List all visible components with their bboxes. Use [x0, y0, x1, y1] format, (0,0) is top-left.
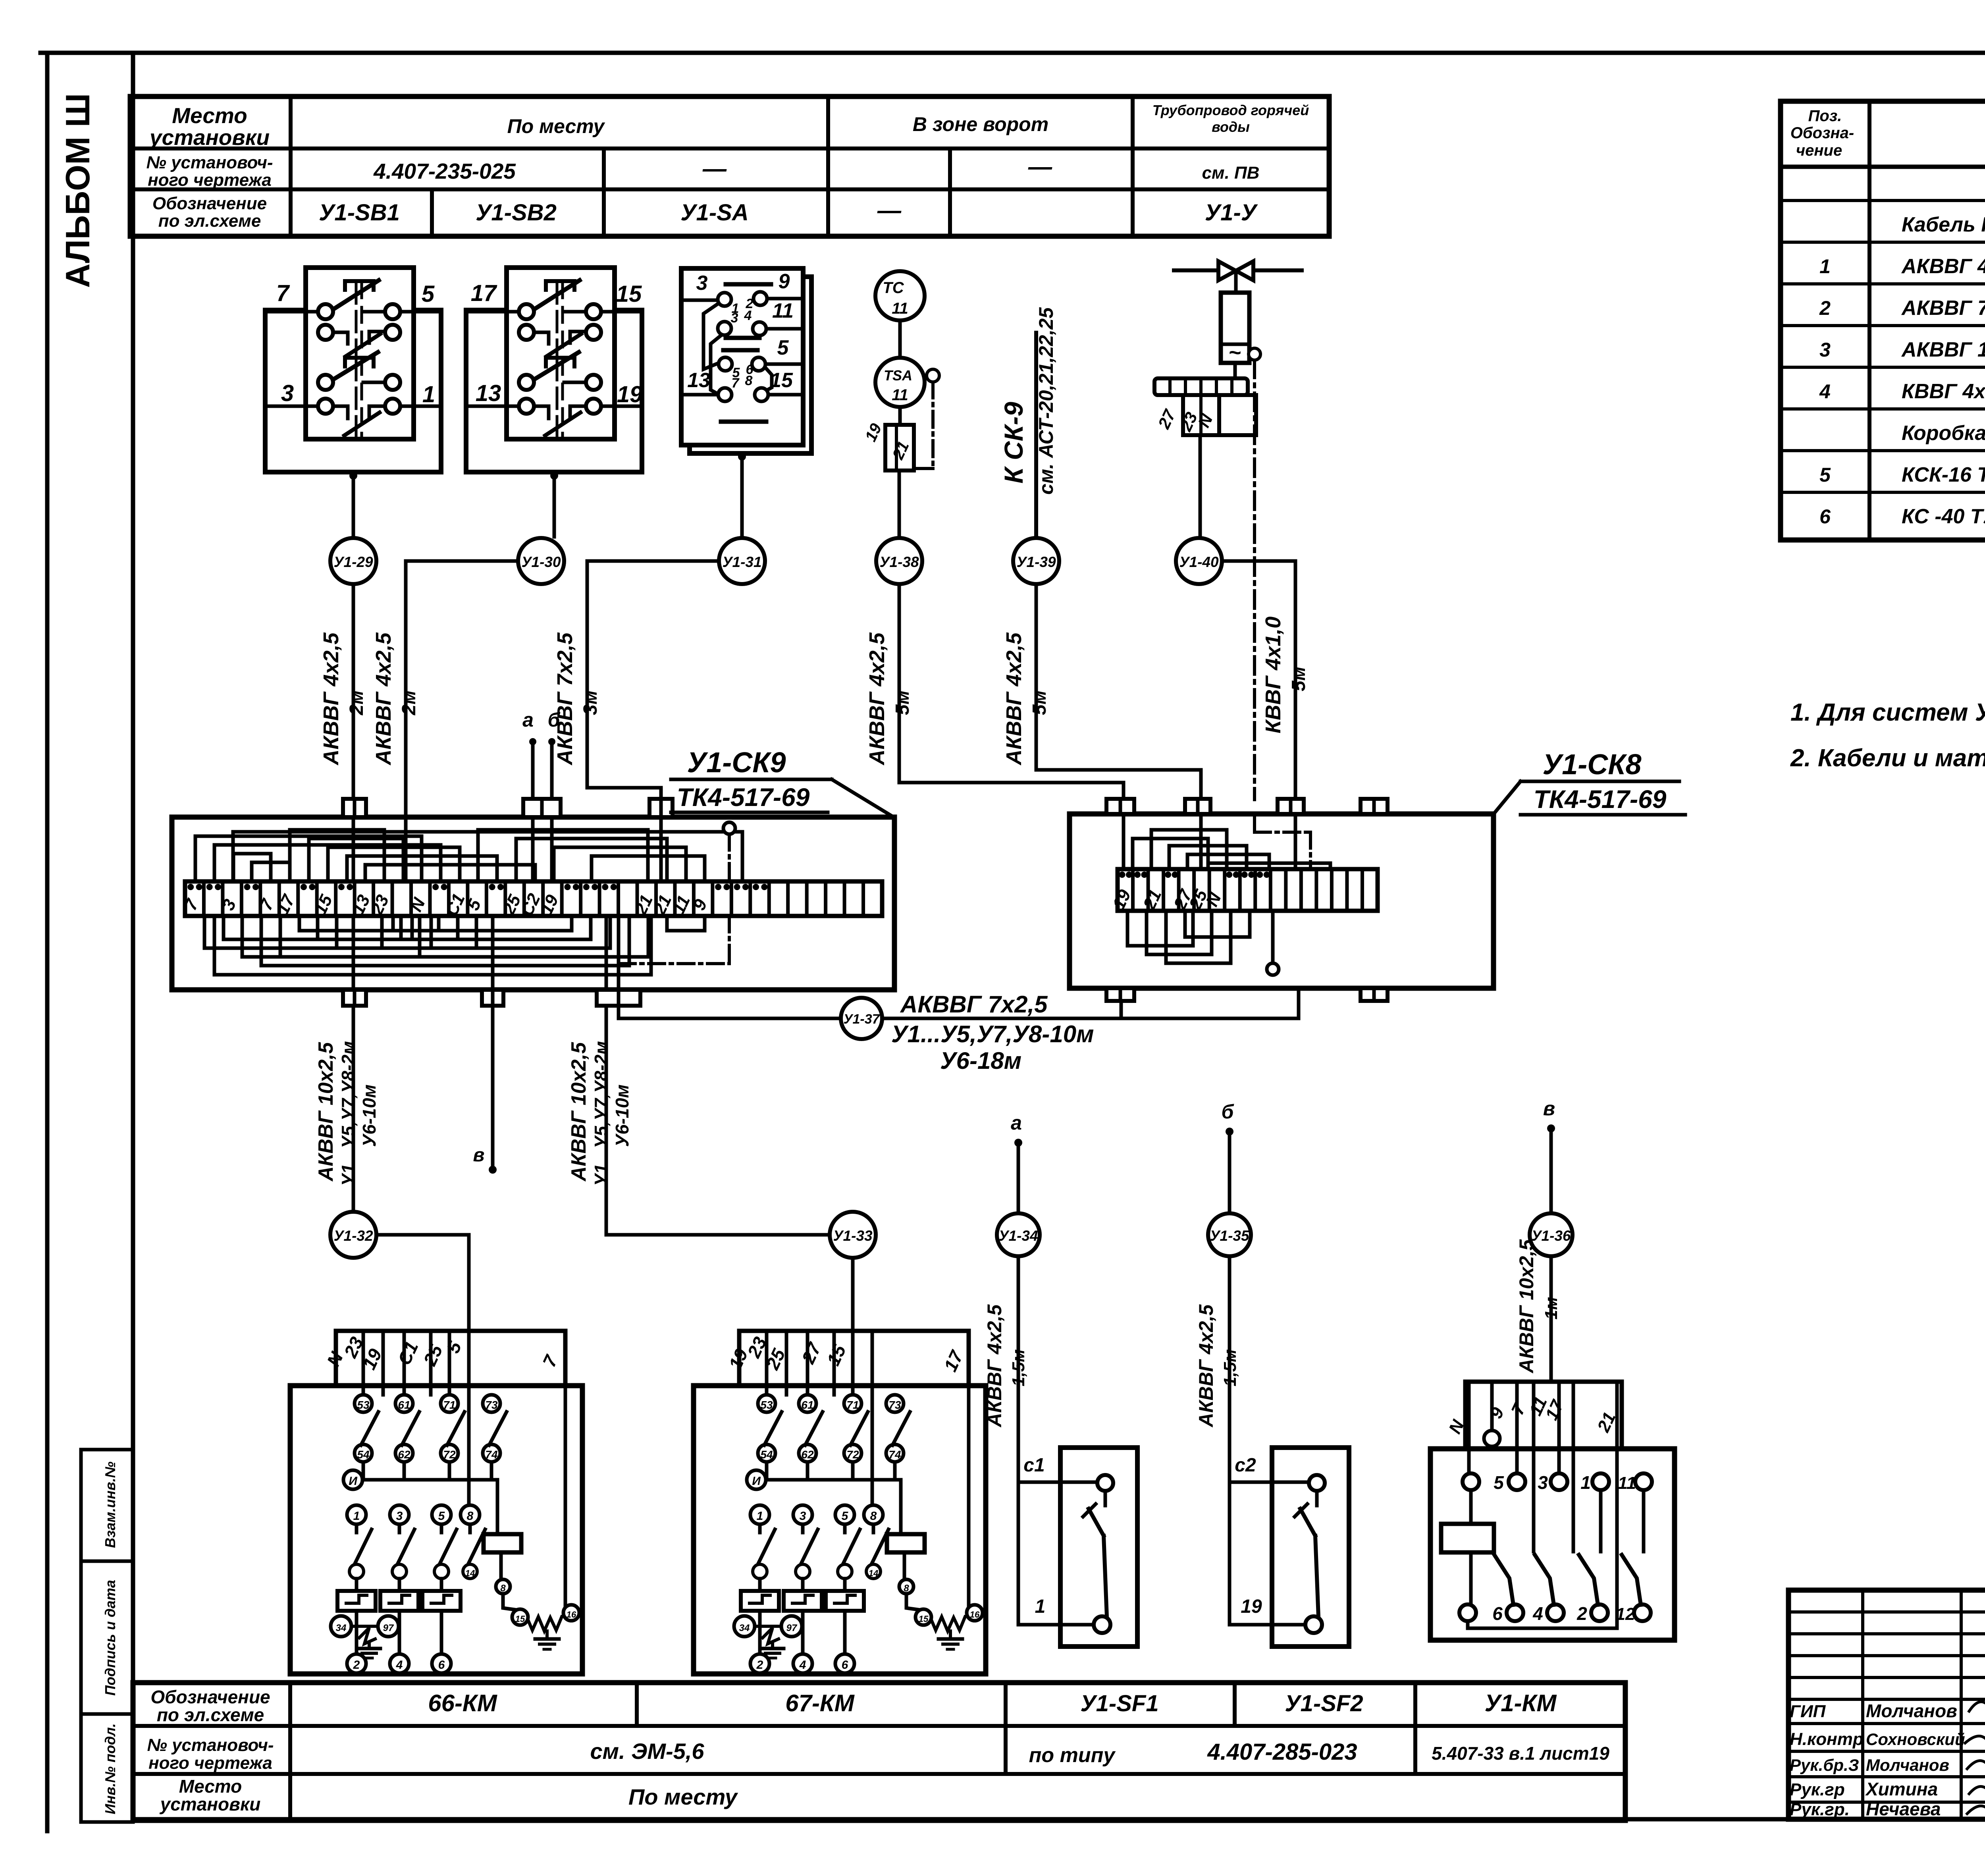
svg-text:Взам.инв.№: Взам.инв.№ [102, 1461, 118, 1548]
mid junction circles [734, 1616, 755, 1637]
svg-text:5: 5 [422, 281, 435, 307]
solenoid aux contact [1249, 348, 1260, 360]
wire СК9 to У1-32 [352, 1006, 355, 1212]
svg-text:У1-34: У1-34 [998, 1228, 1038, 1244]
svg-text:с2: с2 [1235, 1455, 1256, 1476]
svg-text:АКВВГ 4х2,5: АКВВГ 4х2,5 [319, 632, 343, 765]
svg-text:19: 19 [617, 382, 643, 407]
svg-text:АКВВГ 4х2,5: АКВВГ 4х2,5 [1002, 632, 1026, 765]
svg-text:У1-35: У1-35 [1210, 1228, 1250, 1244]
node И [343, 1470, 362, 1489]
svg-text:В зоне ворот: В зоне ворот [913, 113, 1048, 135]
svg-text:61: 61 [801, 1399, 813, 1411]
svg-text:71: 71 [443, 1399, 455, 1411]
svg-text:Трубопровод горячей: Трубопровод горячей [1152, 102, 1309, 118]
svg-text:1: 1 [1035, 1596, 1046, 1617]
svg-text:2м: 2м [399, 690, 420, 715]
svg-text:КВВГ 4х1,0: КВВГ 4х1,0 [1261, 617, 1285, 733]
svg-text:У6-10м: У6-10м [612, 1084, 632, 1147]
svg-text:5: 5 [438, 1510, 445, 1523]
svg-text:У1-37: У1-37 [843, 1012, 880, 1027]
wire TSA to relay box [898, 407, 902, 425]
svg-text:АКВВГ 4х2,5: АКВВГ 4х2,5 [983, 1304, 1006, 1428]
svg-text:72: 72 [846, 1448, 859, 1461]
instrument TSA 11 [875, 358, 925, 407]
hot water pipe line [1174, 268, 1302, 272]
У1-КМ duct wires [1467, 1382, 1471, 1474]
svg-text:У1...У5,У7,У8-2м: У1...У5,У7,У8-2м [338, 1041, 358, 1186]
СК9 top bushings [343, 799, 366, 817]
pin circles [318, 304, 333, 319]
У1-37 branch to СК8 tab [1120, 1002, 1123, 1018]
СК8 dash-dot path [1253, 814, 1256, 832]
svg-text:К СК-9: К СК-9 [999, 402, 1028, 484]
cable marker У1-38 [876, 538, 922, 584]
starter top wire duct [739, 1331, 969, 1386]
svg-text:б: б [548, 709, 561, 731]
svg-text:5.407-33 в.1 лист19: 5.407-33 в.1 лист19 [1432, 1743, 1609, 1764]
svg-text:1: 1 [422, 382, 435, 407]
svg-text:1: 1 [1580, 1472, 1591, 1493]
svg-text:13: 13 [476, 380, 501, 406]
svg-text:У1-32: У1-32 [333, 1228, 373, 1244]
TSA dash-dot link [931, 382, 935, 469]
svg-text:6: 6 [1492, 1603, 1503, 1624]
svg-text:АКВВГ 10х2,5: АКВВГ 10х2,5 [567, 1042, 590, 1182]
breaker blade [1315, 1536, 1318, 1617]
svg-text:АКВВГ 10х2,5: АКВВГ 10х2,5 [1901, 338, 1985, 361]
signature grid [1788, 1610, 1985, 1614]
svg-text:9: 9 [779, 270, 790, 293]
svg-text:У1-SB2: У1-SB2 [476, 200, 557, 226]
svg-text:5: 5 [1494, 1472, 1504, 1493]
svg-text:4: 4 [799, 1658, 806, 1672]
СК9 incoming wires [352, 817, 355, 881]
svg-text:по типу: по типу [1029, 1744, 1116, 1767]
svg-text:4: 4 [1819, 380, 1831, 403]
svg-text:11: 11 [892, 386, 908, 404]
push-button switch У1-SB1 outer box [265, 310, 441, 472]
svg-text:2: 2 [353, 1658, 360, 1672]
svg-text:1,5м: 1,5м [1220, 1349, 1240, 1386]
svg-text:4: 4 [396, 1658, 403, 1672]
instrument TC 11 [875, 271, 925, 320]
У1-КМ bottom pole circles [1459, 1604, 1476, 1621]
У1-КМ top pole circles [1463, 1473, 1479, 1490]
svg-text:АЛЬБОМ Ш: АЛЬБОМ Ш [59, 93, 97, 288]
duct wires [765, 1331, 769, 1395]
stamp cell Взам.инв.№ [81, 1450, 133, 1561]
SA wire to marker [740, 453, 744, 537]
svg-text:КВВГ 4х1,0: КВВГ 4х1,0 [1902, 380, 1985, 403]
СК9 wiring loops below strip [204, 916, 382, 948]
svg-text:61: 61 [398, 1399, 410, 1411]
svg-text:У6-18м: У6-18м [940, 1047, 1021, 1074]
svg-text:У1-30: У1-30 [521, 554, 561, 570]
svg-text:14: 14 [869, 1568, 878, 1578]
SA double-bar marks [726, 282, 771, 287]
wire У1-33 to 67-КМ [851, 1258, 855, 1329]
svg-text:№ установоч-: № установоч- [146, 153, 273, 172]
svg-text:У1-СК8: У1-СК8 [1542, 749, 1641, 781]
svg-text:3: 3 [281, 380, 294, 406]
wire TC-TSA [898, 320, 902, 358]
svg-text:72: 72 [443, 1448, 456, 1461]
svg-text:73: 73 [888, 1399, 901, 1411]
line to CK-9 [1034, 333, 1038, 536]
СК9 bottom bushings [343, 990, 366, 1006]
svg-text:97: 97 [383, 1623, 394, 1633]
svg-text:установки: установки [148, 125, 270, 150]
selector switch У1-SA shadow box [690, 277, 811, 453]
svg-text:2м: 2м [346, 690, 367, 715]
svg-text:У1-29: У1-29 [333, 554, 373, 570]
svg-text:У1-SF1: У1-SF1 [1080, 1691, 1158, 1716]
wire СК9 to node в [491, 1006, 495, 1170]
auxiliary contacts [758, 1395, 775, 1412]
svg-text:И: И [349, 1475, 358, 1488]
stamp cell Подпись и дата [81, 1561, 133, 1714]
svg-text:34: 34 [336, 1623, 347, 1633]
svg-text:97: 97 [786, 1623, 798, 1633]
svg-text:ТК4-517-69: ТК4-517-69 [677, 783, 810, 812]
wire to У1-40 [1199, 435, 1202, 536]
aux dash-dot down [1253, 360, 1256, 800]
svg-text:6: 6 [842, 1658, 848, 1672]
coil [484, 1534, 521, 1552]
svg-text:Н.контр: Н.контр [1790, 1729, 1864, 1749]
wire в to У1-36 [1549, 1132, 1553, 1212]
svg-text:Рук.бр.З: Рук.бр.З [1790, 1756, 1859, 1774]
СК9 bottom bus [214, 916, 651, 975]
svg-text:2: 2 [1819, 297, 1831, 319]
svg-text:У1-СК9: У1-СК9 [687, 747, 786, 779]
svg-text:По месту: По месту [507, 115, 605, 137]
svg-text:№ установоч-: № установоч- [147, 1735, 274, 1755]
pin wires [466, 310, 519, 314]
cable marker У1-30 [518, 538, 564, 584]
СК9 leader [832, 779, 894, 817]
parts table frame [1781, 101, 1985, 540]
svg-text:2. Кабели и материалы учт: 2. Кабели и материалы учтены для 8 систе… [1790, 744, 1985, 772]
svg-text:5м: 5м [892, 690, 913, 715]
svg-text:У1-SA: У1-SA [680, 200, 748, 226]
starter top wire duct [336, 1331, 565, 1386]
svg-text:53: 53 [760, 1399, 773, 1411]
svg-text:3: 3 [800, 1510, 806, 1523]
svg-text:74: 74 [485, 1448, 498, 1461]
svg-text:6: 6 [1819, 505, 1831, 528]
svg-text:АКВВГ 10х2,5: АКВВГ 10х2,5 [314, 1042, 337, 1182]
node б [1226, 1128, 1233, 1136]
svg-text:16: 16 [970, 1610, 980, 1620]
main contacts [750, 1505, 769, 1524]
wire СК9 to У1-33 [606, 1006, 830, 1235]
duct right wire [564, 1331, 567, 1613]
svg-text:ТSА: ТSА [884, 367, 912, 384]
title block frame [1788, 1590, 1985, 1819]
valve stem [1234, 271, 1238, 293]
svg-text:У1-31: У1-31 [722, 554, 761, 570]
svg-text:У6-10м: У6-10м [359, 1084, 380, 1147]
svg-text:53: 53 [357, 1399, 370, 1411]
right ground symbol [545, 1631, 549, 1639]
svg-text:1,5м: 1,5м [1009, 1349, 1028, 1386]
breaker box body [1060, 1448, 1137, 1647]
svg-text:54: 54 [357, 1448, 370, 1461]
duct right wire [967, 1331, 971, 1613]
svg-text:Молчанов: Молчанов [1866, 1701, 1957, 1721]
svg-text:19: 19 [1241, 1596, 1262, 1617]
breaker blade [1104, 1536, 1107, 1617]
svg-text:3: 3 [731, 310, 738, 326]
svg-text:У1-39: У1-39 [1016, 554, 1056, 570]
svg-text:У1-КМ: У1-КМ [1485, 1690, 1557, 1716]
bottom table frame [133, 1683, 1625, 1820]
cable marker У1-31 [719, 538, 765, 584]
svg-text:8: 8 [467, 1510, 474, 1523]
svg-text:Подпись и дата: Подпись и дата [102, 1580, 118, 1696]
svg-text:У1-SF2: У1-SF2 [1285, 1691, 1363, 1716]
main contacts [347, 1505, 366, 1524]
selector switch У1-SA box [681, 268, 803, 445]
fourth pole [864, 1505, 883, 1524]
svg-text:У1-40: У1-40 [1179, 554, 1219, 570]
wire а to У1-34 [1017, 1147, 1020, 1212]
wire solenoid to terminals [1233, 363, 1237, 378]
svg-text:5: 5 [842, 1510, 849, 1523]
left ground symbol [368, 1644, 371, 1648]
svg-text:Поз.: Поз. [1808, 107, 1842, 125]
svg-text:Молчанов: Молчанов [1866, 1756, 1949, 1774]
svg-text:5: 5 [1819, 464, 1831, 486]
svg-text:11: 11 [772, 299, 794, 322]
RC chain [503, 1594, 520, 1610]
svg-text:И: И [752, 1475, 761, 1488]
svg-text:АКВВГ 4х2,5: АКВВГ 4х2,5 [1901, 255, 1985, 278]
top table frame [130, 96, 1329, 236]
svg-text:13: 13 [687, 369, 710, 392]
svg-text:АКВВГ 10х2,5: АКВВГ 10х2,5 [1515, 1239, 1538, 1374]
push-button switch У1-SB1 inner box [306, 268, 414, 439]
cable marker У1-32 [330, 1212, 376, 1258]
svg-text:73: 73 [485, 1399, 498, 1411]
page border top [40, 51, 1985, 55]
svg-text:4: 4 [744, 308, 752, 323]
svg-text:66-КМ: 66-КМ [428, 1690, 498, 1716]
svg-text:Место: Место [172, 103, 247, 128]
svg-text:воды: воды [1212, 119, 1250, 135]
svg-text:6: 6 [438, 1658, 445, 1672]
svg-text:ного чертежа: ного чертежа [148, 1753, 272, 1773]
cable marker У1-40 [1176, 538, 1222, 584]
svg-text:см. ЭМ-5,6: см. ЭМ-5,6 [590, 1739, 704, 1764]
svg-text:Инв.№ подл.: Инв.№ подл. [102, 1723, 118, 1814]
node а [1014, 1139, 1022, 1147]
SA pin-to-edge stubs [681, 299, 717, 302]
svg-text:7: 7 [276, 280, 290, 306]
svg-text:Обозна-: Обозна- [1790, 124, 1854, 142]
wire СК9 to У1-37 to СК8 [619, 1006, 841, 1018]
svg-text:ТС: ТС [883, 279, 904, 297]
СК8 leader [1494, 781, 1521, 813]
right ground symbol [949, 1631, 952, 1639]
svg-text:Кабель ГОСТ 1508-78*Е: Кабель ГОСТ 1508-78*Е [1902, 213, 1985, 236]
svg-text:62: 62 [398, 1448, 410, 1461]
svg-text:У1-38: У1-38 [879, 554, 919, 570]
СК8 wiring loops below strip [1127, 911, 1193, 946]
svg-text:по эл.схеме: по эл.схеме [158, 211, 261, 231]
svg-text:1м: 1м [1542, 1297, 1561, 1319]
svg-text:2: 2 [1576, 1603, 1587, 1624]
svg-text:а: а [1011, 1112, 1022, 1134]
svg-text:в: в [1543, 1097, 1555, 1120]
pin circles [519, 304, 534, 319]
svg-text:ТК4-517-69: ТК4-517-69 [1534, 785, 1667, 814]
svg-text:15: 15 [515, 1614, 525, 1624]
auxiliary contacts [355, 1395, 372, 1412]
svg-text:1. Для систем У2...У8 с: 1. Для систем У2...У8 схема аналогична д… [1790, 699, 1985, 726]
svg-text:1: 1 [353, 1510, 360, 1523]
svg-text:Коробка соединительная: Коробка соединительная [1902, 422, 1985, 445]
svg-text:По месту: По месту [628, 1784, 738, 1809]
wire У1-39 to CK8 [1036, 584, 1201, 814]
mid junction circles [331, 1616, 351, 1637]
wire У1-32 to 66-КМ [376, 1235, 469, 1330]
СК9 wiring loops above strip [195, 836, 422, 881]
svg-text:8: 8 [745, 373, 753, 388]
plunger [556, 283, 559, 355]
starter box body [694, 1386, 986, 1674]
svg-text:71: 71 [846, 1399, 859, 1411]
page border bottom [133, 1817, 1985, 1822]
svg-text:КС -40 ТУ 36.1764-76: КС -40 ТУ 36.1764-76 [1902, 505, 1985, 528]
svg-text:5м: 5м [1029, 690, 1050, 715]
svg-text:У1...У5,У7,У8-2м: У1...У5,У7,У8-2м [591, 1041, 611, 1186]
svg-text:8: 8 [870, 1510, 877, 1523]
breaker contacts [1309, 1475, 1325, 1491]
solenoid terminal strip [1154, 378, 1248, 395]
СК9 dash-dot node [723, 822, 735, 834]
svg-text:Хитина: Хитина [1865, 1779, 1938, 1799]
wire У1-30 to CK9 [406, 561, 518, 814]
svg-text:У1-У: У1-У [1205, 200, 1258, 226]
coil [887, 1534, 925, 1552]
wire У1-38 to CK8 [899, 584, 1124, 814]
У1-КМ feed wire [1549, 1258, 1553, 1382]
SA pins [718, 293, 731, 306]
TSA side contact [927, 369, 939, 382]
svg-text:Сохновский: Сохновский [1866, 1730, 1965, 1749]
svg-text:12: 12 [1616, 1604, 1635, 1624]
svg-text:62: 62 [801, 1448, 814, 1461]
svg-text:см. АСТ-20,21,22,25: см. АСТ-20,21,22,25 [1035, 307, 1057, 495]
breaker feed wires [1017, 1258, 1020, 1625]
svg-text:ного чертежа: ного чертежа [148, 170, 272, 190]
contactor У1-КМ body [1430, 1449, 1675, 1640]
svg-text:4.407-235-025: 4.407-235-025 [373, 159, 516, 183]
svg-text:34: 34 [739, 1623, 750, 1633]
cable marker У1-29 [330, 538, 376, 584]
У1-КМ coil [1441, 1524, 1494, 1552]
svg-text:3: 3 [396, 1510, 403, 1523]
svg-text:ГИП: ГИП [1790, 1702, 1826, 1721]
svg-text:3: 3 [696, 272, 708, 295]
relay box 19/21 [885, 425, 914, 470]
fourth pole [461, 1505, 480, 1524]
breaker contacts [1097, 1475, 1113, 1491]
svg-text:3: 3 [1819, 339, 1831, 361]
svg-text:15: 15 [616, 281, 642, 307]
signature scribbles [1969, 1702, 1985, 1714]
svg-text:54: 54 [760, 1448, 773, 1461]
drawing frame left [131, 53, 135, 1819]
svg-text:1: 1 [1819, 255, 1831, 278]
svg-text:—: — [702, 155, 727, 182]
svg-text:—: — [877, 197, 902, 224]
svg-text:установки: установки [160, 1794, 261, 1814]
stamp cell Инв.№ подл. [81, 1714, 133, 1822]
cable marker У1-37 [841, 998, 882, 1039]
svg-text:11: 11 [1618, 1473, 1636, 1493]
svg-text:14: 14 [465, 1568, 475, 1578]
СК9 dash-dot below [619, 962, 729, 965]
svg-text:1: 1 [757, 1510, 763, 1523]
СК8 incoming wires [1122, 814, 1125, 869]
left ground symbol [771, 1644, 774, 1648]
cable marker У1-34 [997, 1213, 1040, 1256]
svg-text:по эл.схеме: по эл.схеме [157, 1704, 264, 1725]
svg-text:17: 17 [471, 280, 497, 306]
СК8 wiring loops above strip [1133, 839, 1208, 869]
СК8 corner tabs [1106, 799, 1134, 814]
svg-text:У1-SB1: У1-SB1 [319, 200, 400, 226]
СК8 terminal strip [1118, 869, 1378, 911]
contact blades [334, 280, 379, 309]
svg-text:5м: 5м [1288, 667, 1309, 691]
duct wires [362, 1331, 365, 1395]
svg-text:~: ~ [1229, 341, 1241, 364]
svg-text:3: 3 [1538, 1472, 1548, 1493]
svg-text:У1...У5,У7,У8-10м: У1...У5,У7,У8-10м [891, 1021, 1094, 1047]
wire a into CK9 [529, 738, 536, 745]
svg-text:5: 5 [777, 336, 789, 359]
junction box У1-СК9 body [172, 817, 894, 990]
svg-text:Рук.гр: Рук.гр [1790, 1780, 1845, 1799]
wire to marker [553, 472, 556, 537]
svg-text:КСК-16 ТУ 36.1753-75: КСК-16 ТУ 36.1753-75 [1902, 463, 1985, 486]
СК9 terminal strip [185, 881, 882, 916]
У1-КМ bottom bus [1468, 1621, 1617, 1628]
У1-КМ blades [1494, 1555, 1513, 1605]
valve У1-У [1218, 261, 1236, 280]
solenoid actuator [1221, 293, 1249, 363]
svg-text:11: 11 [892, 300, 908, 317]
plunger [355, 283, 358, 355]
pin wires [265, 310, 318, 314]
svg-text:АКВВГ 7х2,5: АКВВГ 7х2,5 [1901, 297, 1985, 320]
starter box body [290, 1386, 582, 1674]
SA internal link lines [703, 303, 719, 369]
svg-text:чение: чение [1796, 142, 1842, 159]
svg-text:2: 2 [756, 1658, 763, 1672]
wire to marker [352, 472, 355, 537]
cable marker У1-33 [830, 1212, 876, 1258]
У1-КМ top duct [1465, 1382, 1622, 1449]
push-button switch У1-SB2 outer box [466, 310, 642, 472]
node в2 [1547, 1124, 1555, 1132]
svg-text:3м: 3м [580, 690, 601, 715]
